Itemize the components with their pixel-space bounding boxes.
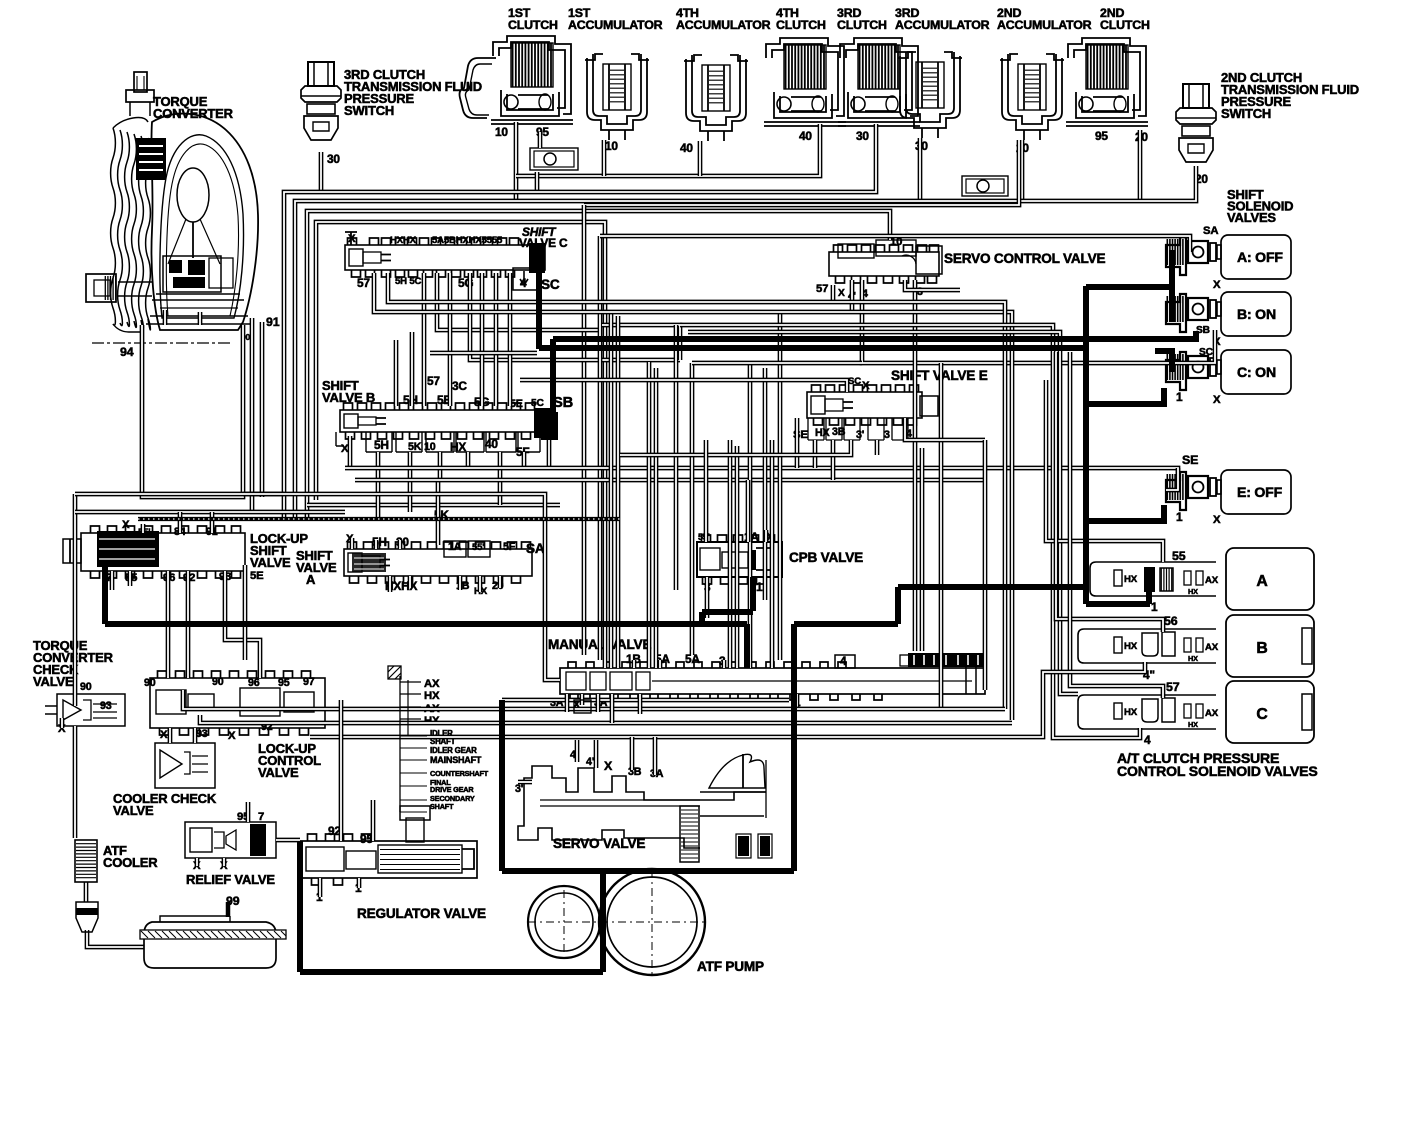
svg-text:93: 93: [100, 700, 112, 712]
svg-text:CPB VALVE: CPB VALVE: [789, 550, 863, 565]
svg-text:VALVES: VALVES: [1227, 210, 1276, 225]
svg-text:ACCUMULATOR: ACCUMULATOR: [997, 18, 1092, 32]
svg-text:COUNTERSHAFT: COUNTERSHAFT: [430, 769, 489, 778]
svg-text:HX: HX: [1124, 641, 1138, 652]
svg-text:HX: HX: [1188, 654, 1198, 663]
svg-text:HX: HX: [1124, 707, 1138, 718]
svg-text:X: X: [604, 759, 613, 773]
svg-text:SERVO CONTROL VALVE: SERVO CONTROL VALVE: [944, 251, 1105, 266]
svg-text:HX: HX: [424, 690, 440, 702]
svg-text:93: 93: [196, 728, 208, 740]
svg-text:ACCUMULATOR: ACCUMULATOR: [895, 18, 990, 32]
svg-text:A: A: [306, 572, 316, 587]
svg-text:57: 57: [1166, 680, 1180, 694]
svg-text:40: 40: [799, 129, 812, 143]
svg-text:VALVE: VALVE: [113, 803, 154, 818]
svg-text:COOLER: COOLER: [103, 855, 158, 870]
svg-text:X: X: [1213, 514, 1221, 526]
svg-text:HX: HX: [815, 427, 831, 439]
svg-text:AX: AX: [1205, 708, 1219, 719]
svg-text:3C: 3C: [452, 379, 467, 393]
svg-text:CLUTCH: CLUTCH: [1100, 18, 1150, 32]
svg-text:B: ON: B: ON: [1237, 306, 1276, 322]
svg-text:10: 10: [605, 139, 618, 153]
svg-text:90: 90: [80, 681, 92, 693]
svg-text:1: 1: [1176, 390, 1183, 404]
svg-text:1: 1: [1151, 600, 1158, 614]
svg-text:X: X: [838, 288, 845, 299]
svg-text:C: C: [1256, 706, 1267, 723]
svg-text:AX: AX: [424, 678, 440, 690]
svg-text:SA: SA: [1203, 225, 1218, 237]
svg-text:SC: SC: [541, 277, 560, 292]
svg-text:94: 94: [120, 345, 134, 359]
svg-text:SE: SE: [1182, 453, 1198, 467]
svg-text:MAINSHAFT: MAINSHAFT: [430, 755, 482, 765]
svg-text:VALVE: VALVE: [296, 560, 337, 575]
svg-text:3': 3': [515, 783, 523, 795]
svg-text:55': 55': [472, 542, 484, 553]
svg-text:55: 55: [1172, 549, 1186, 563]
svg-text:DRIVE GEAR: DRIVE GEAR: [430, 785, 474, 794]
svg-text:40: 40: [680, 141, 693, 155]
svg-text:A: OFF: A: OFF: [1237, 249, 1283, 265]
svg-text:B: B: [1256, 640, 1267, 657]
svg-text:CLUTCH: CLUTCH: [837, 18, 887, 32]
svg-text:30: 30: [327, 152, 340, 166]
svg-text:AX: AX: [1205, 575, 1219, 586]
svg-text:CLUTCH: CLUTCH: [508, 18, 558, 32]
svg-text:E: OFF: E: OFF: [1237, 484, 1283, 500]
svg-text:CLUTCH: CLUTCH: [776, 18, 826, 32]
svg-text:HX: HX: [1188, 587, 1198, 596]
svg-text:3: 3: [884, 429, 890, 441]
svg-text:10: 10: [495, 125, 508, 139]
svg-text:1: 1: [1176, 510, 1183, 524]
svg-text:X: X: [1213, 279, 1221, 291]
svg-text:CONTROL SOLENOID VALVES: CONTROL SOLENOID VALVES: [1117, 763, 1318, 779]
svg-text:57: 57: [427, 374, 440, 388]
svg-text:7: 7: [258, 811, 264, 823]
svg-text:ACCUMULATOR: ACCUMULATOR: [676, 18, 771, 32]
svg-text:A: A: [1256, 573, 1267, 590]
svg-text:AX: AX: [1205, 642, 1219, 653]
svg-text:HX: HX: [1124, 574, 1138, 585]
svg-text:ATF PUMP: ATF PUMP: [697, 959, 764, 974]
svg-text:X: X: [1213, 394, 1221, 406]
svg-text:SHAFT: SHAFT: [430, 802, 454, 811]
svg-text:C: ON: C: ON: [1237, 364, 1276, 380]
svg-text:56: 56: [1164, 614, 1178, 628]
svg-text:4: 4: [1144, 733, 1151, 747]
svg-text:5H: 5H: [374, 438, 389, 452]
svg-text:ACCUMULATOR: ACCUMULATOR: [568, 18, 663, 32]
svg-text:X: X: [348, 233, 356, 245]
svg-text:5E: 5E: [250, 570, 264, 582]
svg-text:57: 57: [816, 283, 828, 295]
svg-text:57: 57: [357, 276, 370, 290]
svg-text:SWITCH: SWITCH: [344, 103, 394, 118]
svg-text:91: 91: [266, 315, 280, 329]
svg-text:RELIEF VALVE: RELIEF VALVE: [186, 872, 275, 887]
svg-text:VALVE: VALVE: [250, 555, 291, 570]
svg-text:95: 95: [1095, 129, 1108, 143]
svg-text:REGULATOR VALVE: REGULATOR VALVE: [357, 906, 486, 921]
svg-text:VALVE: VALVE: [33, 674, 74, 689]
svg-text:VALVE: VALVE: [258, 765, 299, 780]
svg-text:HX: HX: [1188, 720, 1198, 729]
svg-text:SB: SB: [553, 395, 573, 411]
svg-text:30: 30: [856, 129, 869, 143]
svg-text:SWITCH: SWITCH: [1221, 106, 1271, 121]
svg-text:IDLER GEAR: IDLER GEAR: [430, 746, 477, 755]
